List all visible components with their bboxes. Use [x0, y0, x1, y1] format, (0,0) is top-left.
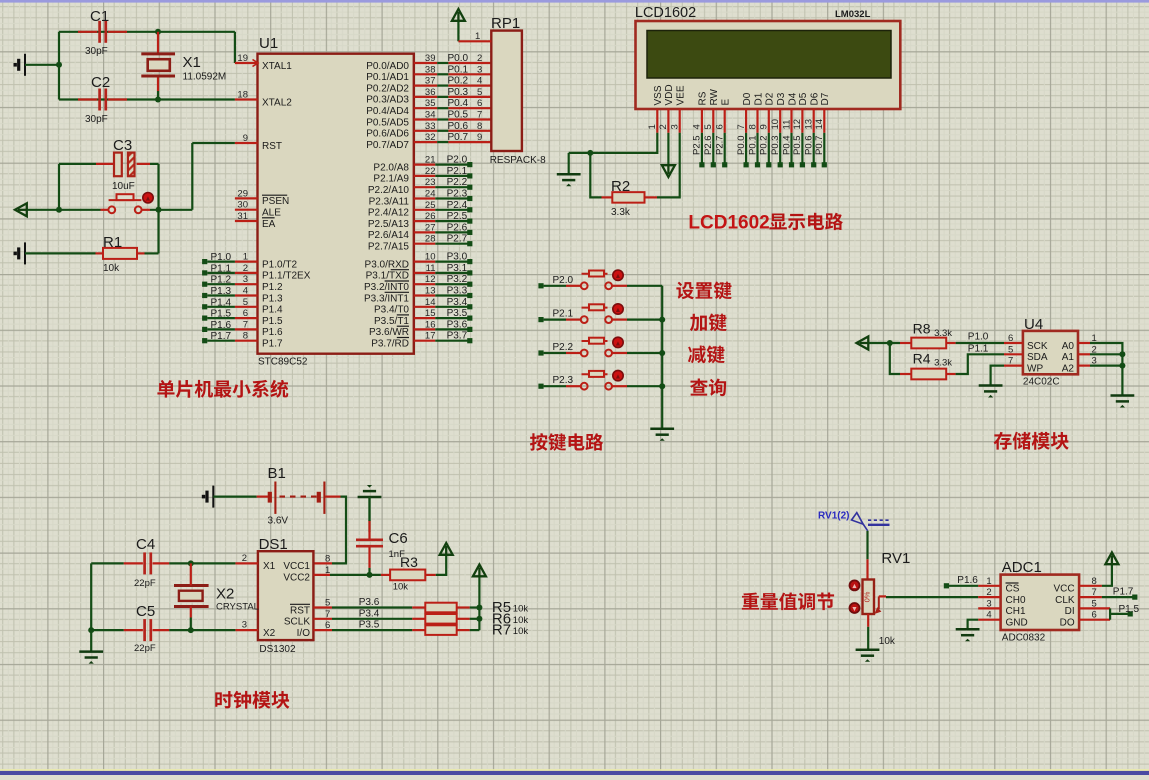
wire VCC2: [330, 574, 381, 576]
wire C1 right pin: [108, 31, 127, 33]
svg-text:10: 10: [770, 119, 781, 130]
svg-text:E: E: [721, 99, 732, 106]
wire R5 to rail: [470, 606, 480, 608]
pin 18 stub U1: [235, 98, 258, 100]
svg-text:12: 12: [792, 119, 803, 130]
wire P0.1 LCD: [756, 133, 758, 163]
U4 pin 7 stub: [1004, 365, 1023, 367]
svg-text:P0.3: P0.3: [770, 135, 781, 155]
svg-text:P3.7: P3.7: [447, 331, 468, 342]
crystal X1: [141, 54, 175, 76]
wire button left pin: [101, 209, 109, 211]
svg-text:X1: X1: [263, 561, 276, 572]
svg-text:2: 2: [242, 553, 247, 564]
wire C5 left pin: [124, 629, 143, 631]
wire battery left: [213, 496, 256, 498]
svg-text:P2.6/A14: P2.6/A14: [368, 230, 410, 241]
wire C5 to X2 pin: [169, 629, 235, 631]
wire reset row: [28, 209, 101, 211]
junction X1 top: [155, 29, 161, 35]
svg-text:PSEN: PSEN: [262, 196, 289, 207]
potentiometer RV1 body: [863, 580, 875, 615]
power terminal ADC VCC: [1105, 552, 1118, 565]
svg-text:VCC: VCC: [1053, 584, 1074, 595]
svg-text:D7: D7: [820, 92, 831, 105]
wire P1.5: [1110, 613, 1128, 615]
svg-text:P1.6: P1.6: [262, 327, 283, 338]
resistor R4: [911, 369, 946, 380]
svg-text:5: 5: [703, 124, 714, 129]
wire button right pin: [612, 352, 627, 354]
wire X2 bottom pin: [190, 607, 192, 618]
svg-text:DS1: DS1: [259, 536, 288, 553]
LCD pin 3 stub: [679, 109, 681, 133]
svg-text:2: 2: [477, 53, 482, 64]
title 存储模块: [994, 432, 1069, 450]
svg-text:P1.3: P1.3: [262, 293, 283, 304]
svg-text:D1: D1: [753, 92, 764, 105]
svg-text:VEE: VEE: [676, 85, 687, 105]
svg-text:STC89C52: STC89C52: [258, 357, 308, 368]
svg-text:7: 7: [477, 110, 482, 121]
U4 pin 1 stub: [1078, 342, 1090, 344]
push-button key 4 (查询): [581, 371, 612, 390]
svg-text:P0.6: P0.6: [804, 135, 815, 155]
key label 查询: [690, 379, 726, 397]
wire VSS to ground: [569, 133, 658, 153]
svg-text:10k: 10k: [513, 604, 529, 615]
node P3.6 terminal: [467, 327, 472, 332]
DS1 pin 1 stub: [313, 574, 330, 576]
junction A1: [1119, 351, 1125, 357]
wire into XTAL1: [234, 32, 236, 63]
wire P0.0 LCD: [745, 133, 747, 163]
svg-text:P1.5: P1.5: [211, 309, 232, 320]
wire down to R4: [890, 343, 900, 374]
svg-text:10k: 10k: [513, 626, 529, 637]
node P0.5 terminal: [800, 162, 805, 167]
wire P0.2: [437, 84, 448, 86]
svg-text:▲: ▲: [615, 273, 622, 280]
svg-text:P0.7: P0.7: [448, 132, 469, 143]
wire P0.2 LCD: [768, 133, 770, 163]
junction key common: [659, 383, 665, 389]
svg-text:P2.3/A11: P2.3/A11: [369, 196, 410, 207]
node P2.3 terminal: [538, 384, 543, 389]
wire P1.7: [207, 340, 235, 342]
svg-text:▲: ▲: [145, 196, 152, 203]
wire R5 left pin: [412, 606, 425, 608]
svg-text:P1.7: P1.7: [211, 331, 232, 342]
svg-text:C4: C4: [136, 536, 155, 553]
node P0.0 terminal: [744, 162, 749, 167]
RV1 increment button: [850, 580, 860, 590]
wire C3 left pin: [96, 163, 114, 165]
wire P2.7 LCD: [724, 133, 726, 163]
wire P2.3: [544, 385, 566, 387]
wire P0.7 LCD: [823, 133, 825, 163]
wire X2 bottom: [190, 618, 192, 631]
wire P2.4 pin stub: [414, 209, 436, 211]
svg-text:C6: C6: [389, 530, 408, 547]
wire button left pin: [566, 319, 581, 321]
svg-text:11: 11: [781, 120, 792, 130]
capacitor C1: [100, 21, 106, 43]
capacitor C2: [100, 89, 106, 111]
wire P2.3: [435, 197, 468, 199]
svg-text:8: 8: [477, 121, 482, 132]
wire R2 left pin: [602, 196, 613, 198]
wire reset node down: [157, 210, 159, 254]
push-button key 2 (加键): [581, 304, 612, 323]
svg-text:RST: RST: [290, 605, 310, 616]
crystal X2: [174, 586, 209, 607]
wire RP1 pin 1 stub: [458, 40, 491, 42]
wire VCC to power: [1102, 565, 1112, 586]
key 1 actuator: [613, 270, 623, 280]
reset button actuator: [143, 193, 153, 203]
svg-text:9: 9: [243, 133, 248, 144]
wire R5 right pin: [457, 606, 470, 608]
wire to RST pin: [192, 142, 235, 144]
svg-text:P1.2: P1.2: [262, 282, 283, 293]
svg-text:P2.4/A12: P2.4/A12: [368, 208, 410, 219]
svg-text:6: 6: [243, 308, 248, 319]
svg-text:R1: R1: [103, 234, 122, 251]
ground WP: [979, 386, 1003, 398]
LCD pin 6 stub: [724, 109, 726, 133]
svg-text:P0.1: P0.1: [747, 135, 758, 155]
wire P2.2 to common: [627, 352, 662, 354]
svg-text:P2.5: P2.5: [692, 135, 703, 155]
svg-text:P0.7/AD7: P0.7/AD7: [366, 140, 409, 151]
wire P2.7 pin stub: [414, 243, 436, 245]
wire battery to VCC1: [332, 497, 346, 564]
svg-text:P3.2/INT0: P3.2/INT0: [364, 282, 409, 293]
wire C2 right pin: [108, 98, 127, 100]
wire P2.6 LCD: [712, 133, 714, 163]
junction R5 rail: [476, 605, 482, 611]
svg-text:3: 3: [670, 124, 681, 129]
node P2.3 terminal: [467, 196, 472, 201]
wire P0.5 LCD: [801, 133, 803, 163]
svg-text:DI: DI: [1065, 606, 1075, 617]
svg-text:▲: ▲: [851, 583, 858, 590]
svg-text:1: 1: [243, 252, 248, 263]
LCD pin 13 stub: [813, 109, 815, 133]
wire P3.7: [435, 340, 468, 342]
node P0.2 terminal: [766, 162, 771, 167]
title 重量值调节: [742, 593, 834, 611]
wire P1.2: [207, 283, 235, 285]
svg-text:P3.5: P3.5: [447, 308, 468, 319]
node P2.1 terminal: [467, 173, 472, 178]
svg-text:1: 1: [475, 31, 480, 42]
push-button key 3 (减键): [581, 338, 612, 357]
svg-text:▲: ▲: [615, 307, 622, 314]
svg-text:RESPACK-8: RESPACK-8: [490, 155, 546, 166]
node P2.2 terminal: [538, 350, 543, 355]
wire button left pin: [566, 385, 581, 387]
wire button right pin: [612, 385, 627, 387]
svg-text:P3.3/INT1: P3.3/INT1: [364, 293, 409, 304]
svg-text:P3.4: P3.4: [359, 608, 380, 619]
wire C4 right pin: [153, 562, 170, 564]
svg-text:P2.0/A8: P2.0/A8: [373, 162, 409, 173]
DS1 pin 5 stub: [313, 606, 332, 608]
wire P2.0: [435, 164, 468, 166]
wire A1: [1090, 353, 1122, 355]
svg-text:P0.1/AD1: P0.1/AD1: [366, 72, 409, 83]
LCD pin 8 stub: [756, 109, 758, 133]
svg-text:P0.1: P0.1: [448, 64, 469, 75]
svg-text:P1.5: P1.5: [1119, 604, 1140, 615]
ADC pin 1 stub: [978, 585, 1000, 587]
wire P0.6 pin stub: [414, 130, 437, 132]
wire key common rail: [661, 286, 663, 429]
push-button key 1 (设置键): [581, 271, 612, 290]
wire P2.6: [435, 231, 468, 233]
wire P3.2 pin stub: [414, 283, 436, 285]
U4 pin 5 stub: [1004, 353, 1023, 355]
wire WP to ground: [991, 366, 1004, 386]
svg-text:P1.6: P1.6: [211, 320, 232, 331]
svg-text:A1: A1: [1062, 352, 1075, 363]
wire P0.3: [437, 96, 448, 98]
svg-text:P1.7: P1.7: [1113, 586, 1134, 597]
svg-text:0%: 0%: [863, 591, 872, 602]
svg-text:CH1: CH1: [1006, 606, 1026, 617]
svg-text:30pF: 30pF: [85, 114, 108, 125]
wire B1 right pin: [326, 496, 341, 498]
svg-text:R4: R4: [913, 351, 931, 367]
wire button to corner: [150, 209, 192, 211]
svg-text:P1.0/T2: P1.0/T2: [262, 259, 297, 270]
wire RP1 pin 2 stub: [448, 62, 491, 64]
junction A2: [1119, 363, 1125, 369]
capacitor C6: [356, 540, 383, 546]
power terminal VDD (down): [662, 164, 675, 177]
LCD pin 14 stub: [823, 109, 825, 133]
svg-text:VDD: VDD: [664, 84, 675, 105]
svg-text:LCD1602: LCD1602: [635, 5, 696, 21]
svg-text:P1.0: P1.0: [968, 332, 989, 343]
wire R1 left pin: [96, 252, 104, 254]
svg-text:P2.6: P2.6: [447, 222, 468, 233]
svg-text:P3.5: P3.5: [359, 620, 380, 631]
wire R1 left: [25, 252, 96, 254]
svg-text:P0.0/AD0: P0.0/AD0: [366, 61, 409, 72]
svg-text:C1: C1: [90, 8, 109, 25]
wire RV1 bottom pin: [867, 614, 869, 627]
pin 7 stub U1: [235, 328, 258, 330]
pin 8 stub U1: [235, 340, 258, 342]
svg-text:R3: R3: [400, 554, 418, 570]
wire P2.7: [435, 243, 468, 245]
wire P0.3 LCD: [779, 133, 781, 163]
svg-text:P2.3: P2.3: [447, 189, 468, 200]
wire C6 to VCC2 net: [368, 568, 370, 575]
node P3.5 terminal: [467, 316, 472, 321]
key label 加键: [690, 313, 727, 331]
RV1 wiper arrow: [875, 596, 882, 614]
power terminal pullups: [473, 565, 486, 578]
node P2.0 terminal: [538, 283, 543, 288]
svg-text:P3.7/RD: P3.7/RD: [371, 339, 409, 350]
node P1.2 terminal: [202, 282, 207, 287]
wire ground to C6 upper: [368, 497, 370, 521]
svg-text:P1.2: P1.2: [211, 275, 232, 286]
svg-text:3: 3: [242, 620, 247, 631]
svg-text:10uF: 10uF: [112, 181, 135, 192]
svg-text:P2.2/A10: P2.2/A10: [368, 185, 410, 196]
wire P3.0: [435, 261, 468, 263]
node P2.2 terminal: [467, 185, 472, 190]
svg-text:▲: ▲: [615, 340, 622, 347]
svg-text:P0.4/AD4: P0.4/AD4: [366, 106, 409, 117]
node P3.2 terminal: [467, 282, 472, 287]
LCD pin 9 stub: [768, 109, 770, 133]
wire A2: [1090, 365, 1122, 367]
wire RV1 wiper to CH0: [886, 596, 978, 598]
svg-text:P1.1: P1.1: [211, 263, 232, 274]
wire to C3: [59, 163, 96, 165]
svg-text:X2: X2: [263, 628, 276, 639]
key 2 actuator: [613, 304, 623, 314]
svg-text:2: 2: [243, 263, 248, 274]
svg-text:X1: X1: [183, 54, 201, 71]
DS1 pin 2 stub: [235, 562, 258, 564]
wire P0.4 LCD: [790, 133, 792, 163]
node P1.7 terminal: [202, 338, 207, 343]
wire R1 right pin: [137, 252, 145, 254]
LCD pin 4 stub: [701, 109, 703, 133]
wire ground drop: [568, 153, 570, 174]
capacitor C4: [145, 552, 151, 574]
svg-text:▲: ▲: [615, 374, 622, 381]
U4 pin 6 stub: [1004, 342, 1023, 344]
title 显示电路: [769, 213, 843, 230]
pin 19 stub U1: [235, 62, 258, 64]
node P1.5 terminal: [202, 316, 207, 321]
node P0.1 terminal: [755, 162, 760, 167]
wire P2.5 pin stub: [414, 220, 436, 222]
wire VDD: [667, 133, 669, 165]
svg-text:P0.2/AD2: P0.2/AD2: [366, 83, 409, 94]
svg-text:5: 5: [1008, 344, 1013, 355]
wire P0.1 pin stub: [414, 73, 437, 75]
svg-text:EA: EA: [262, 219, 276, 230]
wire XTAL1 net top: [59, 31, 235, 33]
LCD pin 5 stub: [712, 109, 714, 133]
wire X2 top pin: [190, 563, 192, 585]
wire C5 right pin: [153, 629, 170, 631]
svg-text:RP1: RP1: [491, 15, 520, 32]
svg-text:8: 8: [747, 124, 758, 129]
capacitor C5: [145, 619, 151, 641]
wire P0.7: [437, 141, 448, 143]
wire VEE down: [657, 133, 680, 198]
ADC pin 7 stub: [1079, 596, 1102, 598]
ground above C6 (inverted): [358, 485, 382, 497]
wire pullup rail: [478, 577, 480, 630]
svg-text:P2.2: P2.2: [553, 342, 574, 353]
svg-text:7: 7: [243, 319, 248, 330]
LCD pin 11 stub: [790, 109, 792, 133]
wire RV1 wiper stub: [879, 595, 886, 597]
svg-text:4: 4: [986, 610, 991, 621]
wire P3.4: [435, 306, 468, 308]
wire P1.1: [207, 272, 235, 274]
wire P1.6: [207, 328, 235, 330]
svg-text:P3.0: P3.0: [447, 252, 468, 263]
svg-text:DS1302: DS1302: [259, 644, 296, 655]
wire RP1 pin 7 stub: [448, 118, 491, 120]
svg-text:P2.7: P2.7: [447, 234, 468, 245]
node P3.7 terminal: [467, 338, 472, 343]
svg-text:P2.7/A15: P2.7/A15: [368, 242, 410, 253]
svg-text:P2.1: P2.1: [447, 166, 468, 177]
svg-text:ADC1: ADC1: [1002, 559, 1042, 576]
node P3.3 terminal: [467, 293, 472, 298]
wire P1.4: [207, 306, 235, 308]
LCD pin 10 stub: [779, 109, 781, 133]
wire P3.6: [435, 328, 468, 330]
svg-text:CLK: CLK: [1055, 595, 1075, 606]
wire P0.6 LCD: [813, 133, 815, 163]
wire button right pin: [612, 285, 627, 287]
svg-text:DO: DO: [1060, 618, 1075, 629]
svg-text:29: 29: [237, 188, 248, 199]
svg-text:P2.1: P2.1: [553, 309, 574, 320]
wire P3.5: [435, 317, 468, 319]
ADC pin 2 stub: [978, 596, 1000, 598]
EEPROM U4 24C02C body: [1023, 331, 1078, 374]
svg-text:XTAL1: XTAL1: [262, 61, 292, 72]
node P0.7 terminal: [822, 162, 827, 167]
DS1 pin 8 stub: [313, 562, 332, 564]
svg-text:B1: B1: [268, 465, 286, 482]
svg-text:P2.0: P2.0: [553, 275, 574, 286]
wire C5 left: [91, 629, 124, 631]
wire P3.1 pin stub: [414, 272, 436, 274]
ground keys: [650, 429, 674, 441]
svg-text:5: 5: [477, 87, 482, 98]
svg-text:P3.4: P3.4: [447, 297, 468, 308]
svg-text:3: 3: [477, 64, 482, 75]
junction X2 bottom: [188, 627, 194, 633]
node P3.0 terminal: [467, 259, 472, 264]
svg-text:SDA: SDA: [1027, 352, 1048, 363]
wire P3.4: [332, 618, 412, 620]
U4 pin 2 stub: [1078, 353, 1090, 355]
svg-text:P3.0/RXD: P3.0/RXD: [365, 259, 409, 270]
svg-text:SCLK: SCLK: [284, 617, 310, 628]
svg-text:A0: A0: [1062, 341, 1075, 352]
svg-text:P0.4: P0.4: [781, 135, 792, 155]
voltage probe RV1(2): [852, 513, 890, 531]
wire P1.0 to SCK: [956, 342, 1004, 344]
svg-text:P3.1: P3.1: [447, 263, 468, 274]
wire C4 left: [91, 562, 124, 564]
svg-text:C5: C5: [136, 603, 155, 620]
wire P3.2: [435, 283, 468, 285]
wire X1 bottom pin: [157, 76, 159, 91]
wire C1 left pin: [78, 31, 97, 33]
ADC pin 5 stub: [1079, 607, 1110, 609]
pin 6 stub U1: [235, 317, 258, 319]
ground terminal battery: [202, 486, 214, 508]
